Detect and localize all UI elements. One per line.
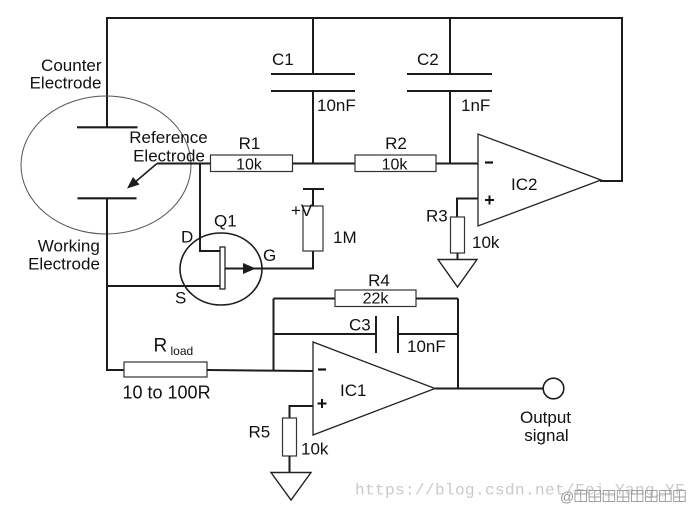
wire IC1 plus input bbox=[290, 406, 314, 418]
resistor R2 bbox=[355, 134, 436, 174]
svg-text:10nF: 10nF bbox=[317, 96, 356, 115]
wire feedback right vertical bbox=[457, 299, 459, 389]
svg-text:10nF: 10nF bbox=[407, 337, 446, 356]
arrow reference pointer bbox=[127, 164, 157, 189]
svg-text:D: D bbox=[181, 228, 193, 247]
svg-text:IC2: IC2 bbox=[511, 175, 537, 194]
svg-text:C3: C3 bbox=[349, 316, 371, 335]
wire top feedback bbox=[106, 17, 622, 19]
wire reference electrode bbox=[157, 163, 211, 165]
wire Q1 source bbox=[107, 285, 220, 287]
svg-text:R: R bbox=[154, 336, 168, 357]
op-amp IC2 bbox=[478, 134, 601, 226]
svg-text:G: G bbox=[263, 246, 276, 265]
svg-text:S: S bbox=[175, 289, 186, 308]
wire feedback left vertical bbox=[273, 299, 275, 372]
working electrode plate bbox=[78, 197, 137, 199]
op-amp IC1 bbox=[313, 342, 435, 435]
svg-text:10k: 10k bbox=[301, 440, 329, 459]
capacitor C1 bbox=[271, 17, 356, 164]
wire Q1 drain bbox=[200, 164, 220, 252]
capacitor C2 bbox=[407, 17, 492, 164]
resistor R5 bbox=[249, 418, 329, 459]
svg-text:10k: 10k bbox=[236, 157, 263, 174]
transistor Q1 bbox=[175, 212, 276, 308]
wire right feedback vertical bbox=[621, 17, 623, 181]
wire IC2 output bbox=[600, 180, 623, 182]
label Working Electrode bbox=[28, 237, 100, 274]
svg-text:R3: R3 bbox=[426, 207, 448, 226]
svg-text:+V: +V bbox=[291, 201, 313, 220]
svg-text:load: load bbox=[171, 344, 194, 358]
wire IC2 plus input bbox=[457, 199, 478, 218]
label Counter Electrode bbox=[30, 56, 102, 93]
wire R1 to R2 bbox=[293, 163, 356, 165]
svg-text:1M: 1M bbox=[333, 228, 357, 247]
svg-text:@: @ bbox=[560, 489, 574, 505]
svg-text:signal: signal bbox=[524, 426, 568, 445]
label Output signal bbox=[520, 408, 571, 445]
capacitor C3 bbox=[274, 316, 459, 357]
svg-text:Electrode: Electrode bbox=[30, 74, 102, 93]
svg-text:Counter: Counter bbox=[41, 56, 102, 75]
resistor R3 bbox=[426, 207, 500, 254]
svg-text:10 to 100R: 10 to 100R bbox=[123, 383, 211, 403]
svg-text:10k: 10k bbox=[382, 157, 409, 174]
wire R5 to ground bbox=[289, 456, 291, 473]
svg-text:C2: C2 bbox=[417, 50, 439, 69]
svg-text:IC1: IC1 bbox=[340, 381, 366, 400]
svg-text:22k: 22k bbox=[363, 291, 390, 308]
ground (R5) bbox=[271, 473, 311, 501]
svg-text:Output: Output bbox=[520, 408, 571, 427]
wire output bbox=[435, 388, 543, 390]
label Reference Electrode bbox=[129, 128, 207, 165]
watermark cjk badge bbox=[560, 489, 685, 505]
resistor R1 bbox=[211, 134, 293, 174]
svg-text:R1: R1 bbox=[239, 134, 261, 153]
wire counter electrode lead bbox=[106, 17, 108, 127]
svg-text:Working: Working bbox=[38, 237, 100, 256]
ground (R3) bbox=[438, 260, 477, 288]
svg-text:Reference: Reference bbox=[129, 128, 207, 147]
wire R2 to IC2 bbox=[436, 163, 478, 165]
svg-text:C1: C1 bbox=[272, 50, 294, 69]
svg-text:1nF: 1nF bbox=[461, 96, 490, 115]
svg-text:Q1: Q1 bbox=[214, 212, 237, 231]
svg-text:Electrode: Electrode bbox=[28, 255, 100, 274]
svg-text:Electrode: Electrode bbox=[133, 146, 205, 165]
svg-text:10k: 10k bbox=[472, 233, 500, 252]
wire R3 to ground bbox=[457, 253, 459, 260]
wire Rload to IC1 minus bbox=[207, 370, 313, 371]
electrochemical cell bbox=[21, 96, 191, 234]
resistor 1M bbox=[303, 206, 357, 251]
counter electrode plate bbox=[77, 126, 138, 128]
svg-text:R4: R4 bbox=[368, 271, 390, 290]
svg-text:R5: R5 bbox=[249, 423, 271, 442]
wire working electrode lead bbox=[107, 198, 124, 370]
resistor Rload bbox=[123, 336, 211, 403]
output terminal bbox=[543, 378, 564, 399]
power +V bbox=[291, 189, 324, 220]
resistor R4 bbox=[274, 271, 459, 308]
wire Q1 gate to 1M bbox=[250, 251, 313, 269]
svg-text:R2: R2 bbox=[385, 134, 407, 153]
